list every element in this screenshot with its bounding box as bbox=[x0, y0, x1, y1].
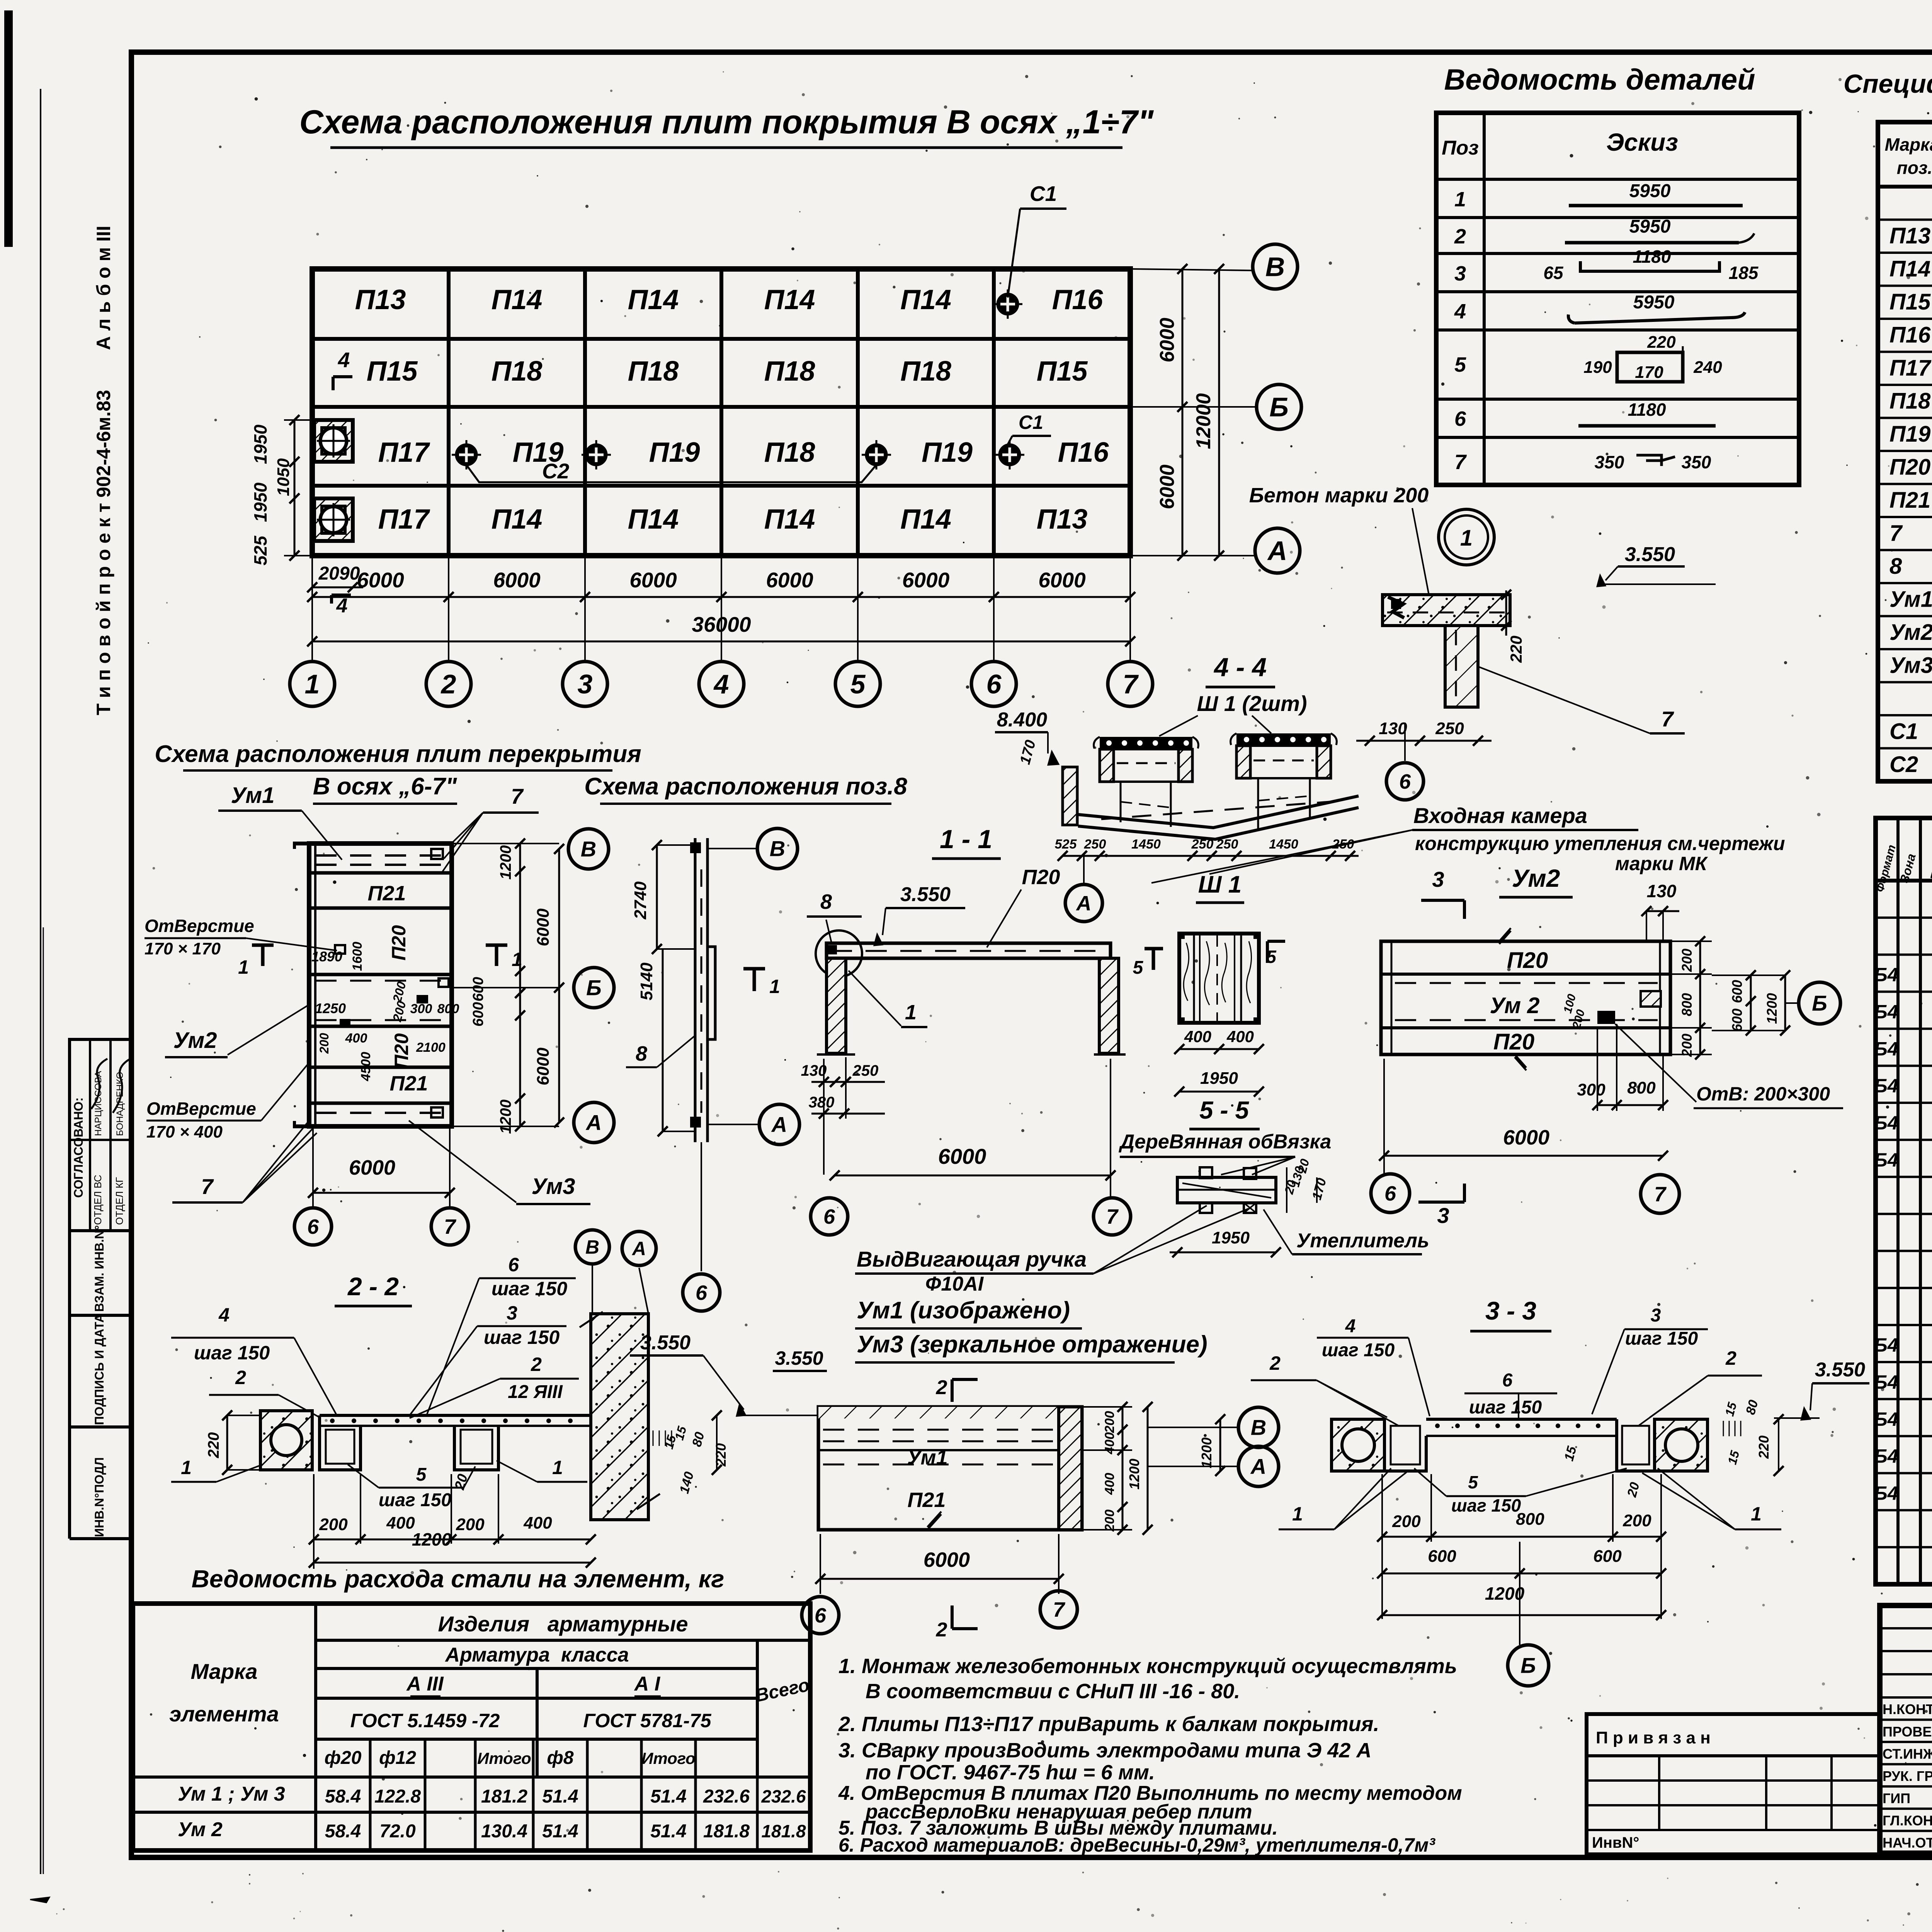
3-3 dim 1200 bbox=[1382, 1614, 1661, 1616]
svg-text:П20: П20 bbox=[1889, 455, 1930, 480]
svg-text:1: 1 bbox=[181, 1457, 192, 1478]
svg-text:7: 7 bbox=[1654, 1183, 1667, 1206]
svg-text:Ф10АI: Ф10АI bbox=[925, 1273, 984, 1295]
sketch row5 rect bbox=[1617, 352, 1683, 382]
svg-text:П18: П18 bbox=[1889, 389, 1931, 414]
Ум2 openings bbox=[1641, 991, 1661, 1007]
axis circles В А 2-2 bbox=[575, 1230, 609, 1264]
axis circles В А poz8 bbox=[757, 828, 798, 869]
svg-text:П19: П19 bbox=[649, 437, 700, 468]
svg-text:Б: Б bbox=[1269, 392, 1289, 422]
svg-text:200: 200 bbox=[317, 1033, 331, 1054]
svg-text:4: 4 bbox=[1454, 300, 1466, 323]
svg-text:181.8: 181.8 bbox=[761, 1821, 806, 1841]
svg-text:6. Расход материалоВ: дреВеси: 6. Расход материалоВ: дреВесины-0,29м³, … bbox=[838, 1834, 1435, 1856]
stakan symbol row4 bbox=[314, 498, 353, 541]
svg-text:1180: 1180 bbox=[1633, 247, 1671, 267]
svg-text:6000: 6000 bbox=[534, 1048, 553, 1085]
axis circles В А Ум1 bbox=[1238, 1407, 1279, 1447]
svg-text:Б4: Б4 bbox=[1874, 1371, 1898, 1393]
svg-text:3. СВарку произВодить электро: 3. СВарку произВодить электродами типа Э… bbox=[838, 1739, 1371, 1762]
svg-text:П20: П20 bbox=[1022, 866, 1060, 889]
svg-text:В соответствии с СНиП III -16: В соответствии с СНиП III -16 - 80. bbox=[866, 1680, 1240, 1703]
spec2 table frame bbox=[1876, 818, 1932, 1584]
svg-text:6: 6 bbox=[307, 1215, 319, 1238]
svg-text:В: В bbox=[1251, 1415, 1266, 1440]
2-2 right rib bbox=[454, 1426, 498, 1470]
svg-text:Б4: Б4 bbox=[1874, 1149, 1898, 1171]
svg-text:2090: 2090 bbox=[318, 563, 360, 584]
svg-text:П15: П15 bbox=[367, 356, 418, 387]
svg-text:П16: П16 bbox=[1052, 284, 1104, 315]
svg-text:ф12: ф12 bbox=[379, 1748, 416, 1768]
svg-text:Ведомость расхода стали на эле: Ведомость расхода стали на элемент, кг bbox=[192, 1565, 724, 1593]
svg-text:элемента: элемента bbox=[169, 1702, 279, 1726]
svg-text:шаг 150: шаг 150 bbox=[1451, 1495, 1521, 1515]
svg-text:232.6: 232.6 bbox=[703, 1786, 750, 1807]
stakan symbol row3 bbox=[314, 420, 353, 462]
svg-text:1200: 1200 bbox=[1764, 993, 1780, 1024]
svg-text:шаг 150: шаг 150 bbox=[1625, 1328, 1698, 1349]
svg-text:1: 1 bbox=[552, 1457, 563, 1478]
svg-text:300: 300 bbox=[1577, 1080, 1605, 1099]
svg-text:Б4: Б4 bbox=[1874, 1038, 1898, 1060]
svg-text:6000: 6000 bbox=[902, 568, 950, 592]
svg-text:1: 1 bbox=[305, 669, 320, 699]
svg-text:П14: П14 bbox=[492, 504, 543, 535]
2-2 slab bbox=[320, 1414, 591, 1417]
svg-text:250: 250 bbox=[852, 1062, 879, 1079]
svg-text:поз.: поз. bbox=[1897, 158, 1932, 178]
svg-text:СОГЛАСОВАНО:: СОГЛАСОВАНО: bbox=[71, 1097, 85, 1198]
svg-text:Изделия арматурные: Изделия арматурные bbox=[438, 1612, 688, 1636]
svg-text:400: 400 bbox=[523, 1514, 552, 1532]
svg-text:Б4: Б4 bbox=[1874, 1446, 1898, 1467]
svg-text:122.8: 122.8 bbox=[374, 1786, 421, 1807]
svg-text:В: В bbox=[1265, 252, 1285, 282]
svg-text:4 - 4: 4 - 4 bbox=[1213, 653, 1267, 682]
svg-text:2: 2 bbox=[936, 1619, 947, 1641]
svg-text:170 × 170: 170 × 170 bbox=[145, 939, 221, 958]
svg-text:ГЛ.КОНСТР: ГЛ.КОНСТР bbox=[1883, 1813, 1932, 1828]
svg-text:шаг 150: шаг 150 bbox=[194, 1342, 270, 1364]
svg-text:П14: П14 bbox=[764, 504, 815, 535]
margin signature squiggles bbox=[91, 1059, 107, 1109]
1-1 bottom dims bbox=[811, 1081, 885, 1083]
svg-text:4: 4 bbox=[713, 669, 729, 699]
svg-text:3: 3 bbox=[578, 669, 593, 699]
svg-text:170 × 400: 170 × 400 bbox=[146, 1122, 223, 1141]
svg-text:ОтВ: 200×300: ОтВ: 200×300 bbox=[1696, 1083, 1830, 1105]
svg-text:3: 3 bbox=[507, 1302, 517, 1324]
extension lines to axis circles bbox=[311, 556, 313, 663]
Ум1 plan rect bbox=[818, 1407, 1082, 1530]
svg-text:1: 1 bbox=[1751, 1503, 1762, 1525]
svg-text:Эскиз: Эскиз bbox=[1606, 128, 1678, 156]
axis circles В Б А perek bbox=[568, 829, 609, 869]
svg-text:5950: 5950 bbox=[1633, 292, 1675, 313]
margin stamp ВЗАМ ИНВ bbox=[70, 1229, 131, 1232]
svg-text:6000: 6000 bbox=[493, 568, 541, 592]
corner detail drawing bbox=[1383, 595, 1510, 626]
svg-text:6000: 6000 bbox=[1503, 1126, 1549, 1149]
svg-text:6: 6 bbox=[1454, 407, 1466, 430]
Ум2 break marks bbox=[1499, 928, 1511, 944]
svg-text:7: 7 bbox=[1123, 669, 1139, 699]
svg-text:П17: П17 bbox=[1889, 355, 1932, 381]
svg-text:6000: 6000 bbox=[1038, 568, 1086, 592]
svg-text:С1: С1 bbox=[1889, 719, 1918, 744]
svg-text:Бетон марки 200: Бетон марки 200 bbox=[1249, 484, 1429, 507]
axis circle Б 3-3 bbox=[1508, 1645, 1549, 1686]
svg-text:П18: П18 bbox=[764, 356, 815, 387]
right dims of plan bbox=[1130, 269, 1254, 270]
svg-text:181.8: 181.8 bbox=[703, 1821, 750, 1842]
Ум2 plan rect bbox=[1381, 941, 1670, 1054]
mount circle row1 col6 bbox=[998, 294, 1018, 314]
svg-text:Ум1: Ум1 bbox=[231, 783, 275, 808]
svg-text:П14: П14 bbox=[900, 504, 951, 535]
svg-text:П21: П21 bbox=[368, 882, 406, 905]
svg-text:Спецификация к схеме расположе: Спецификация к схеме расположения плит п… bbox=[1844, 69, 1932, 99]
svg-text:200: 200 bbox=[1622, 1511, 1651, 1530]
svg-text:П14: П14 bbox=[628, 504, 679, 535]
svg-text:Схема расположения поз.8: Схема расположения поз.8 bbox=[584, 773, 907, 800]
svg-text:П13: П13 bbox=[1037, 504, 1088, 535]
spec1 table frame bbox=[1878, 122, 1932, 781]
svg-text:240: 240 bbox=[1693, 358, 1722, 377]
svg-text:3.550: 3.550 bbox=[775, 1347, 823, 1369]
Ум1 right dims bbox=[1082, 1406, 1132, 1408]
svg-text:6: 6 bbox=[1399, 770, 1411, 793]
corner detail dims bbox=[1356, 740, 1492, 742]
svg-text:шаг 150: шаг 150 bbox=[484, 1327, 560, 1348]
svg-text:7: 7 bbox=[1053, 1598, 1066, 1621]
svg-text:ГОСТ 5.1459 -72: ГОСТ 5.1459 -72 bbox=[350, 1710, 500, 1731]
svg-text:5 - 5: 5 - 5 bbox=[1199, 1096, 1249, 1124]
svg-text:1950: 1950 bbox=[1212, 1228, 1250, 1247]
axis circles 6 7 Ум1 bbox=[802, 1597, 839, 1634]
vedomost table frame bbox=[1436, 113, 1799, 485]
svg-text:4: 4 bbox=[336, 595, 348, 617]
3-3 bottom dims bbox=[1382, 1536, 1661, 1538]
svg-text:ГОСТ 5781-75: ГОСТ 5781-75 bbox=[583, 1710, 711, 1731]
axis circles 6 7 section 1-1 bbox=[811, 1198, 848, 1235]
1-1 right column bbox=[1099, 958, 1119, 1053]
svg-text:А: А bbox=[631, 1238, 646, 1260]
svg-text:1200: 1200 bbox=[412, 1529, 452, 1549]
poz8 dims bbox=[656, 845, 658, 949]
scan speckle noise bbox=[1801, 109, 1803, 111]
svg-text:Ш 1 (2шт): Ш 1 (2шт) bbox=[1197, 691, 1307, 716]
Ум2 right dims bbox=[1670, 940, 1712, 942]
svg-text:А: А bbox=[1250, 1454, 1266, 1479]
svg-text:П13: П13 bbox=[1889, 223, 1930, 248]
svg-text:1200: 1200 bbox=[1126, 1459, 1142, 1490]
svg-text:400: 400 bbox=[1226, 1027, 1254, 1046]
margin stamp СОГЛАСОВАНО bbox=[70, 1039, 131, 1231]
svg-text:1600: 1600 bbox=[350, 942, 365, 971]
svg-text:Ш 1: Ш 1 bbox=[1198, 871, 1242, 898]
svg-text:А III: А III bbox=[406, 1673, 444, 1695]
svg-text:600: 600 bbox=[1729, 980, 1745, 1003]
svg-text:51.4: 51.4 bbox=[650, 1821, 686, 1842]
svg-text:С1: С1 bbox=[1019, 412, 1043, 433]
svg-text:6: 6 bbox=[1384, 1182, 1396, 1205]
svg-text:П20: П20 bbox=[1507, 948, 1548, 973]
svg-text:ИнвN°: ИнвN° bbox=[1592, 1834, 1639, 1851]
svg-text:600: 600 bbox=[1593, 1547, 1622, 1566]
svg-text:1. Монтаж железобетонных конс: 1. Монтаж железобетонных конструкций осу… bbox=[838, 1655, 1457, 1678]
5-5 dim 1950 bbox=[1170, 1252, 1275, 1253]
svg-text:220: 220 bbox=[205, 1432, 222, 1459]
svg-text:П15: П15 bbox=[1037, 356, 1088, 387]
svg-text:350: 350 bbox=[1595, 452, 1624, 472]
svg-text:1: 1 bbox=[769, 976, 780, 997]
svg-text:6000: 6000 bbox=[938, 1144, 986, 1168]
svg-text:1: 1 bbox=[1460, 526, 1473, 551]
svg-text:250: 250 bbox=[1084, 837, 1106, 852]
svg-text:2: 2 bbox=[936, 1376, 947, 1399]
svg-text:П20: П20 bbox=[388, 925, 410, 961]
1-1 corner circle bbox=[816, 930, 862, 977]
svg-text:С1: С1 bbox=[1030, 182, 1057, 206]
svg-text:8: 8 bbox=[636, 1042, 647, 1065]
svg-text:Итого: Итого bbox=[477, 1749, 531, 1767]
axis circles 6 7 Ум2 bbox=[1371, 1174, 1410, 1213]
svg-text:В: В bbox=[581, 837, 596, 861]
svg-text:шаг 150: шаг 150 bbox=[1469, 1397, 1542, 1418]
svg-text:220: 220 bbox=[1647, 333, 1676, 352]
svg-text:6: 6 bbox=[823, 1205, 835, 1228]
2-2 right wall bbox=[591, 1314, 648, 1520]
svg-text:600: 600 bbox=[1729, 1009, 1745, 1032]
svg-text:Б4: Б4 bbox=[1874, 1334, 1898, 1356]
svg-text:2100: 2100 bbox=[416, 1040, 446, 1055]
svg-text:2: 2 bbox=[1454, 225, 1466, 248]
3-3 dims 600 600 bbox=[1382, 1573, 1661, 1575]
svg-text:шаг 150: шаг 150 bbox=[379, 1490, 452, 1510]
perek plan right dims bbox=[452, 843, 559, 844]
svg-text:7: 7 bbox=[511, 784, 524, 808]
svg-text:800: 800 bbox=[437, 1002, 459, 1016]
svg-text:Ум3 (зеркальное отражение): Ум3 (зеркальное отражение) bbox=[857, 1331, 1207, 1358]
svg-text:ОтВерстие: ОтВерстие bbox=[145, 916, 254, 936]
3-3 right dims bbox=[1723, 1421, 1724, 1436]
svg-text:4: 4 bbox=[338, 348, 350, 372]
poz8 element bbox=[694, 838, 697, 1142]
svg-text:7: 7 bbox=[1106, 1205, 1119, 1228]
svg-text:Б: Б bbox=[1812, 991, 1827, 1015]
svg-text:4: 4 bbox=[1345, 1316, 1356, 1337]
svg-text:1050: 1050 bbox=[274, 458, 293, 496]
svg-text:П20: П20 bbox=[1493, 1029, 1534, 1054]
svg-text:Б4: Б4 bbox=[1874, 1112, 1898, 1134]
svg-text:Б4: Б4 bbox=[1874, 1001, 1898, 1023]
svg-text:170: 170 bbox=[1635, 363, 1663, 382]
svg-text:5: 5 bbox=[1133, 957, 1144, 978]
axis circles 6 7 perek bbox=[294, 1208, 332, 1245]
svg-text:1: 1 bbox=[1454, 188, 1466, 211]
svg-text:1180: 1180 bbox=[1628, 400, 1666, 420]
svg-text:200: 200 bbox=[456, 1515, 485, 1534]
steel table frame bbox=[133, 1604, 810, 1850]
svg-text:6: 6 bbox=[1502, 1370, 1513, 1391]
svg-text:Б: Б bbox=[586, 976, 602, 1000]
svg-text:БОНАДРЕНКО: БОНАДРЕНКО bbox=[115, 1072, 125, 1136]
svg-text:7: 7 bbox=[1661, 707, 1674, 731]
svg-text:200: 200 bbox=[1392, 1512, 1421, 1531]
svg-text:1450: 1450 bbox=[1269, 837, 1298, 852]
title block outer bbox=[1880, 1605, 1932, 1853]
svg-text:380: 380 bbox=[809, 1094, 835, 1111]
svg-text:350: 350 bbox=[1682, 452, 1711, 472]
svg-text:7: 7 bbox=[444, 1215, 457, 1238]
svg-text:51.4: 51.4 bbox=[542, 1821, 578, 1842]
svg-text:Ум 2: Ум 2 bbox=[178, 1818, 223, 1841]
2-2 wall right dims bbox=[653, 1430, 654, 1446]
svg-text:3: 3 bbox=[1651, 1305, 1661, 1326]
svg-text:А: А bbox=[1267, 536, 1287, 566]
svg-text:Арматура класса: Арматура класса bbox=[444, 1644, 629, 1666]
4-4 shield box 2 bbox=[1236, 733, 1331, 746]
svg-text:Ведомость деталей: Ведомость деталей bbox=[1444, 63, 1755, 96]
svg-text:200: 200 bbox=[1102, 1411, 1117, 1434]
svg-text:Б4: Б4 bbox=[1874, 964, 1898, 986]
svg-text:Б: Б bbox=[1520, 1653, 1536, 1678]
svg-text:Ум1 (изображено): Ум1 (изображено) bbox=[857, 1297, 1070, 1324]
mount circles row 3 bbox=[456, 445, 476, 465]
3-3 slab drawing bbox=[1332, 1419, 1384, 1471]
svg-text:1: 1 bbox=[1292, 1503, 1303, 1525]
svg-text:6000: 6000 bbox=[766, 568, 813, 592]
svg-text:1950: 1950 bbox=[250, 424, 270, 464]
svg-text:3.550: 3.550 bbox=[640, 1332, 690, 1354]
svg-text:1: 1 bbox=[238, 956, 249, 978]
svg-text:400: 400 bbox=[1184, 1027, 1211, 1046]
svg-text:Ум 1 ; Ум 3: Ум 1 ; Ум 3 bbox=[178, 1783, 285, 1805]
svg-text:шаг 150: шаг 150 bbox=[1322, 1340, 1395, 1361]
svg-text:600: 600 bbox=[470, 977, 486, 1001]
svg-text:ОТДЕЛ ВС: ОТДЕЛ ВС bbox=[92, 1175, 104, 1225]
svg-text:5140: 5140 bbox=[637, 963, 656, 1000]
svg-text:12 ЯIII: 12 ЯIII bbox=[508, 1382, 563, 1402]
svg-text:12000: 12000 bbox=[1192, 393, 1215, 449]
1-1 left column bbox=[827, 958, 846, 1053]
svg-text:8.400: 8.400 bbox=[997, 709, 1047, 731]
svg-text:ПОДПИСЬ И ДАТА: ПОДПИСЬ И ДАТА bbox=[92, 1314, 106, 1425]
svg-text:1: 1 bbox=[905, 1001, 917, 1024]
привязан box bbox=[1587, 1714, 1880, 1854]
svg-text:5950: 5950 bbox=[1629, 216, 1671, 237]
svg-text:Ум 2: Ум 2 bbox=[1490, 993, 1539, 1018]
svg-text:Т и п о в о й п р о е к т 90: Т и п о в о й п р о е к т 902-4-6м.83 bbox=[93, 390, 114, 715]
svg-text:6000: 6000 bbox=[534, 908, 553, 946]
svg-text:400: 400 bbox=[386, 1514, 415, 1532]
svg-text:6000: 6000 bbox=[1156, 318, 1179, 362]
svg-text:3 - 3: 3 - 3 bbox=[1485, 1296, 1536, 1325]
svg-text:232.6: 232.6 bbox=[761, 1786, 806, 1806]
svg-text:Ум2: Ум2 bbox=[173, 1028, 217, 1053]
svg-text:С2: С2 bbox=[1889, 752, 1918, 777]
svg-text:ВыдВигающая ручка: ВыдВигающая ручка bbox=[857, 1247, 1087, 1271]
svg-text:Б4: Б4 bbox=[1874, 1075, 1898, 1097]
svg-text:ф20: ф20 bbox=[325, 1748, 362, 1768]
svg-text:7: 7 bbox=[1889, 521, 1903, 546]
svg-text:2: 2 bbox=[1725, 1347, 1736, 1369]
2-2 left rib bbox=[320, 1415, 361, 1470]
svg-text:250: 250 bbox=[1216, 837, 1238, 852]
4-4 inner struts bbox=[1120, 782, 1122, 822]
svg-text:181.2: 181.2 bbox=[481, 1786, 527, 1807]
plate grid columns bbox=[447, 269, 451, 556]
svg-text:П17: П17 bbox=[378, 504, 430, 535]
plate grid rows bbox=[312, 337, 1130, 341]
detail circle 1 bbox=[1439, 509, 1494, 565]
scan streak left edge bbox=[5, 11, 12, 247]
svg-text:5: 5 bbox=[416, 1464, 427, 1485]
axis circles 1-7 bbox=[290, 662, 335, 706]
svg-text:6: 6 bbox=[815, 1604, 827, 1627]
svg-text:65: 65 bbox=[1543, 263, 1564, 283]
svg-text:5950: 5950 bbox=[1629, 181, 1671, 201]
bottom dim line 36000 bbox=[312, 641, 1130, 643]
svg-text:П14: П14 bbox=[628, 284, 679, 315]
svg-text:Ум1: Ум1 bbox=[1889, 587, 1932, 612]
svg-text:П20: П20 bbox=[391, 1033, 412, 1069]
svg-text:185: 185 bbox=[1729, 263, 1759, 283]
svg-text:СТ.ИНЖ: СТ.ИНЖ bbox=[1883, 1746, 1932, 1762]
svg-text:1 - 1: 1 - 1 bbox=[940, 825, 992, 854]
svg-text:130: 130 bbox=[1379, 719, 1407, 738]
svg-text:Б4: Б4 bbox=[1874, 1482, 1898, 1504]
svg-text:П16: П16 bbox=[1889, 323, 1931, 348]
svg-text:ВЗАМ. ИНВ.N°: ВЗАМ. ИНВ.N° bbox=[92, 1225, 106, 1312]
svg-text:Схема расположения плит перекр: Схема расположения плит перекрытия bbox=[155, 741, 641, 767]
svg-text:3.550: 3.550 bbox=[1625, 543, 1675, 566]
svg-text:П14: П14 bbox=[900, 284, 951, 315]
svg-text:2: 2 bbox=[440, 669, 456, 699]
svg-text:2: 2 bbox=[235, 1367, 246, 1388]
margin stamp ИНВ N ПОДЛ bbox=[70, 1537, 131, 1540]
axis circle 6 near 4-4 bbox=[1386, 763, 1423, 800]
svg-text:А I: А I bbox=[634, 1673, 661, 1695]
svg-text:П21: П21 bbox=[390, 1072, 428, 1095]
svg-text:ГИП: ГИП bbox=[1883, 1790, 1910, 1806]
svg-text:В осях „6-7": В осях „6-7" bbox=[313, 773, 457, 800]
svg-text:130.4: 130.4 bbox=[481, 1821, 527, 1842]
svg-text:П14: П14 bbox=[492, 284, 543, 315]
svg-text:П21: П21 bbox=[1889, 488, 1930, 513]
svg-text:130: 130 bbox=[1647, 881, 1677, 901]
svg-text:1200: 1200 bbox=[1199, 1437, 1214, 1468]
svg-text:РУК. ГР.: РУК. ГР. bbox=[1883, 1768, 1932, 1784]
svg-text:7: 7 bbox=[1454, 451, 1467, 474]
svg-text:5: 5 bbox=[850, 669, 866, 699]
svg-text:525: 525 bbox=[250, 535, 270, 565]
4-4 dims row bbox=[1063, 855, 1359, 857]
axis circle А 4-4 bbox=[1083, 856, 1085, 883]
svg-text:Итого: Итого bbox=[641, 1749, 696, 1767]
svg-text:Ум2: Ум2 bbox=[1512, 864, 1560, 892]
axis circles В Б А right bbox=[1253, 244, 1298, 289]
svg-text:1250: 1250 bbox=[315, 1000, 346, 1016]
svg-text:марки МК: марки МК bbox=[1615, 853, 1708, 874]
svg-text:400: 400 bbox=[1102, 1432, 1117, 1455]
svg-text:В: В bbox=[770, 837, 785, 861]
svg-text:Марка: Марка bbox=[191, 1659, 258, 1684]
svg-text:5: 5 bbox=[1454, 353, 1466, 376]
